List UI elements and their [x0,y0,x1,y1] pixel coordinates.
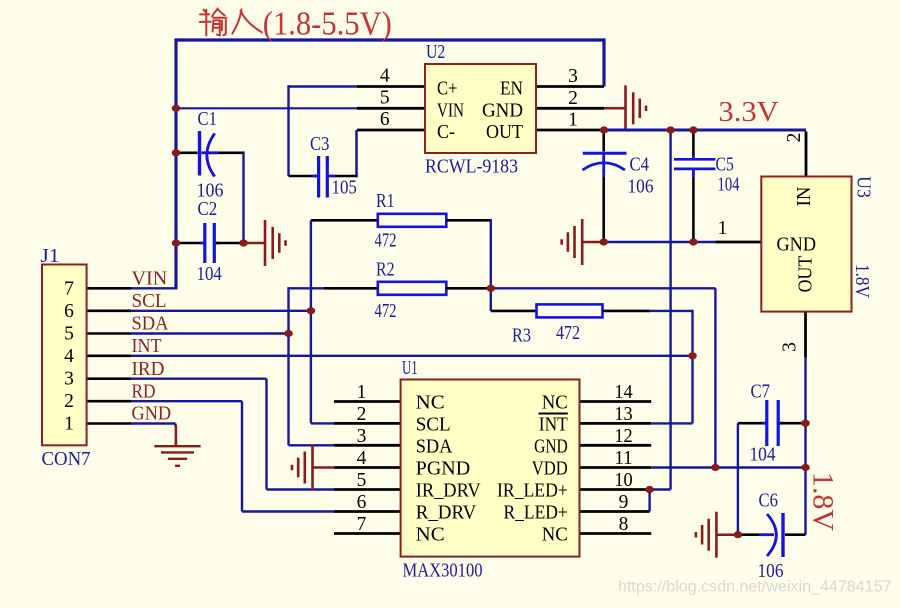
svg-text:3: 3 [357,426,367,447]
svg-text:5: 5 [64,324,74,345]
svg-text:6: 6 [380,109,390,130]
svg-text:2: 2 [784,133,805,143]
svg-text:10: 10 [614,470,632,491]
svg-text:104: 104 [750,445,776,466]
svg-text:J1: J1 [41,246,60,267]
svg-text:GND: GND [534,436,568,457]
svg-text:472: 472 [556,323,580,344]
svg-text:9: 9 [619,492,629,513]
svg-text:SDA: SDA [132,314,169,335]
svg-text:104: 104 [197,264,223,285]
svg-text:SDA: SDA [416,436,453,457]
svg-text:R3: R3 [512,326,531,347]
svg-text:NC: NC [416,525,445,546]
svg-text:472: 472 [375,231,397,252]
svg-text:EN: EN [500,79,523,100]
svg-text:R2: R2 [376,260,395,281]
svg-text:IR_LED+: IR_LED+ [497,481,568,502]
svg-text:104: 104 [718,175,740,196]
svg-text:106: 106 [628,177,654,198]
svg-text:8: 8 [619,514,629,535]
svg-text:4: 4 [380,66,390,87]
svg-text:INT: INT [539,414,568,435]
svg-text:C1: C1 [198,109,217,130]
svg-text:IRD: IRD [132,359,165,380]
svg-text:2: 2 [64,391,74,412]
svg-text:6: 6 [64,301,74,322]
svg-text:C2: C2 [198,199,218,220]
svg-text:R_LED+: R_LED+ [504,503,568,524]
svg-text:C+: C+ [437,79,458,100]
svg-text:GND: GND [777,235,817,256]
svg-text:2: 2 [357,404,367,425]
svg-text:6: 6 [357,492,367,513]
svg-text:C-: C- [437,122,455,143]
svg-text:IR_DRV: IR_DRV [416,481,481,502]
svg-text:VDD: VDD [532,459,568,480]
svg-text:VIN: VIN [132,269,168,290]
svg-text:3.3V: 3.3V [718,96,778,128]
svg-text:12: 12 [614,426,632,447]
svg-text:SCL: SCL [132,291,167,312]
svg-text:C6: C6 [759,491,779,512]
svg-text:C7: C7 [751,382,771,403]
svg-text:3: 3 [780,342,801,352]
svg-text:3: 3 [568,66,578,87]
svg-text:2: 2 [568,88,578,109]
svg-text:U3: U3 [853,176,874,198]
svg-text:U2: U2 [426,42,445,63]
svg-text:4: 4 [357,448,367,469]
svg-text:5: 5 [380,87,390,108]
svg-text:OUT: OUT [486,122,523,143]
svg-text:VIN: VIN [437,100,464,121]
svg-text:472: 472 [375,301,397,322]
svg-text:C3: C3 [310,134,329,155]
svg-text:4: 4 [64,346,74,367]
svg-text:1.8V: 1.8V [851,264,872,298]
svg-text:C4: C4 [630,155,650,176]
svg-text:RD: RD [132,381,156,402]
svg-text:14: 14 [614,382,633,403]
svg-text:7: 7 [64,278,74,299]
svg-text:https://blog.csdn.net/weixin_4: https://blog.csdn.net/weixin_44784157 [618,579,892,596]
svg-text:C5: C5 [716,155,734,176]
svg-text:CON7: CON7 [42,449,91,470]
svg-text:105: 105 [332,178,357,199]
svg-text:PGND: PGND [416,459,471,480]
svg-text:GND: GND [482,100,523,121]
svg-text:1: 1 [64,414,74,435]
svg-text:OUT: OUT [796,256,817,293]
svg-text:1: 1 [357,382,367,403]
svg-text:3: 3 [64,369,74,390]
svg-text:1: 1 [718,218,728,239]
svg-text:5: 5 [357,470,367,491]
svg-text:11: 11 [614,448,632,469]
svg-text:1: 1 [568,110,578,131]
svg-text:NC: NC [416,393,445,414]
svg-text:IN: IN [794,187,815,207]
svg-text:SCL: SCL [416,414,451,435]
svg-text:RCWL-9183: RCWL-9183 [425,157,518,178]
svg-text:(1.8-5.5V): (1.8-5.5V) [263,6,392,43]
svg-text:13: 13 [614,404,632,425]
svg-text:7: 7 [357,514,367,535]
svg-text:MAX30100: MAX30100 [403,561,483,582]
svg-text:R1: R1 [376,191,395,212]
svg-text:1.8V: 1.8V [807,472,840,531]
svg-text:NC: NC [542,393,568,414]
svg-text:U1: U1 [402,358,418,379]
svg-text:R_DRV: R_DRV [416,503,477,524]
svg-text:GND: GND [132,404,172,425]
svg-text:INT: INT [132,336,162,357]
svg-text:NC: NC [542,525,568,546]
